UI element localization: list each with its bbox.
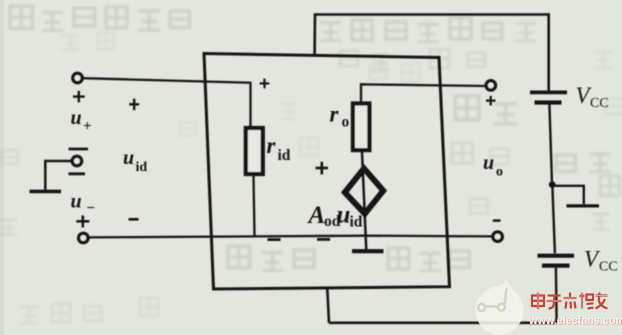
label + (above common terminal): [76, 216, 89, 228]
resistor r_id: [246, 128, 263, 174]
label + (u_o): [486, 96, 496, 106]
wire: r_id bottom to common rail: [254, 176, 255, 236]
watermark logo: elecfans: [476, 282, 622, 335]
svg-text:id: id: [136, 160, 148, 175]
wire: box bottom tap to bottom rail: [327, 289, 329, 323]
junction node (supply midpoint): [549, 181, 556, 188]
wire: r_o top node to output: [361, 84, 486, 102]
label − (u_id bottom): [129, 218, 139, 221]
wire: bottom rail: [329, 321, 557, 324]
label u−: [71, 190, 96, 216]
terminal u_o −: [493, 232, 502, 241]
svg-text:u: u: [71, 107, 82, 129]
svg-text:u: u: [123, 147, 134, 169]
wire: u− terminal to input ground: [45, 161, 72, 190]
label − (r_id bottom): [268, 238, 281, 241]
resistor r_o: [353, 104, 370, 151]
wire: top supply rail: [315, 15, 549, 91]
terminal common (bottom left): [79, 233, 88, 242]
wire: common terminal to dependent-source node: [89, 236, 367, 238]
svg-text:+: +: [83, 119, 92, 135]
terminal u_o +: [486, 81, 495, 90]
svg-text:A: A: [307, 202, 326, 229]
label V_CC (upper): [576, 83, 609, 111]
svg-text:www.elecfans.com: www.elecfans.com: [528, 315, 622, 327]
wire: r_o bottom through source to ground: [362, 152, 366, 251]
wire: battery upper to supply junction: [549, 105, 552, 184]
label r_id: [267, 133, 291, 164]
svg-text:CC: CC: [590, 96, 609, 111]
label A_od u_id: [307, 201, 363, 230]
svg-text:id: id: [350, 213, 363, 230]
svg-text:CC: CC: [599, 259, 618, 274]
op-amp outline box: [204, 54, 450, 290]
label u+: [71, 107, 92, 135]
label u_id: [123, 147, 147, 175]
battery VCC upper: [530, 92, 567, 102]
wire: u+ input to r_id top node: [83, 78, 251, 126]
label + (u_id top): [129, 99, 139, 111]
label u_o: [483, 152, 503, 179]
label + (r_id top): [260, 79, 270, 89]
label + (source top): [316, 162, 328, 175]
svg-text:id: id: [278, 147, 291, 164]
svg-text:o: o: [342, 114, 350, 131]
label − (source bottom): [317, 238, 330, 241]
svg-text:u: u: [337, 201, 351, 228]
label + (below u+ terminal): [73, 91, 85, 103]
svg-text:r: r: [267, 133, 277, 158]
ground (source): [352, 249, 384, 253]
dependent source A_od u_id (diamond): [345, 169, 384, 214]
label r_o: [330, 102, 350, 131]
ground (supply): [567, 204, 600, 207]
terminal u+: [73, 73, 82, 82]
svg-text:o: o: [496, 165, 503, 180]
label − (above u− terminal): [69, 148, 89, 151]
battery VCC lower: [538, 256, 575, 266]
terminal u−: [72, 156, 81, 165]
wire: junction to battery lower: [552, 186, 555, 253]
wire: battery lower to bottom rail: [555, 268, 558, 323]
svg-text:−: −: [87, 200, 96, 216]
label − (above u_o − terminal): [493, 219, 501, 222]
wire: junction to supply ground: [552, 186, 584, 204]
svg-text:u: u: [483, 152, 494, 174]
ground (input): [30, 190, 62, 194]
label V_CC (lower): [584, 247, 618, 275]
label − (below u− terminal): [69, 172, 86, 175]
svg-text:r: r: [330, 102, 340, 127]
wire: dependent-source node to u_o − terminal: [367, 235, 493, 238]
svg-text:u: u: [71, 190, 82, 212]
